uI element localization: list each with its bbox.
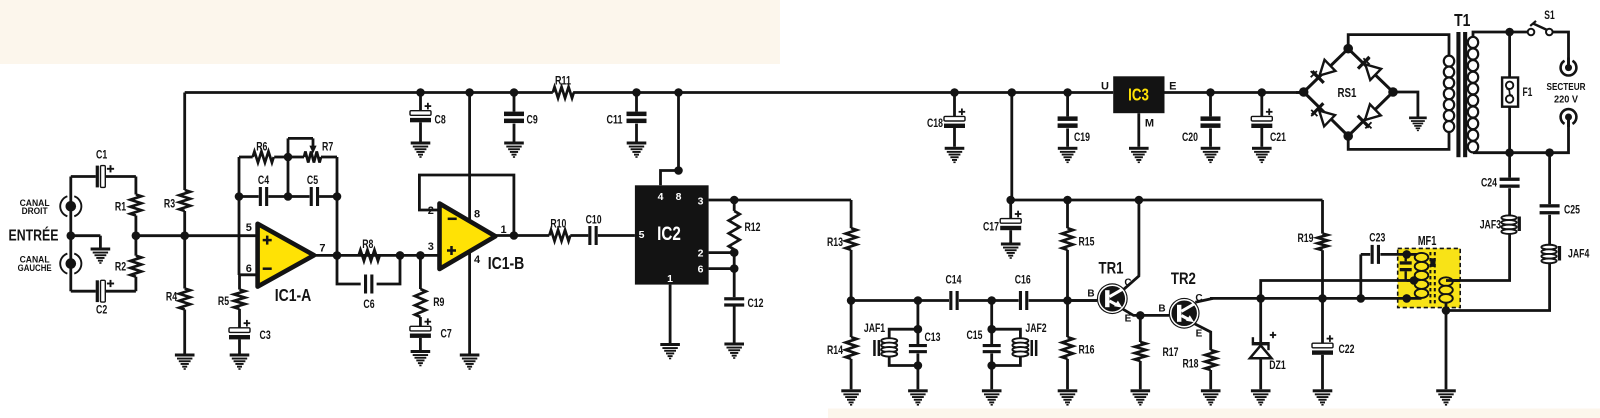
- capacitor C21: [1251, 116, 1272, 121]
- wire: IC3 M pin: [1137, 113, 1140, 147]
- IC1-A plus sign: [263, 239, 272, 242]
- MF1 internal capacitor: [1404, 254, 1406, 261]
- wire: C25 leg: [1548, 153, 1551, 205]
- wire: C24 leg: [1508, 153, 1511, 178]
- potentiometer R7: [304, 152, 321, 163]
- svg-text:JAF2: JAF2: [1025, 321, 1047, 335]
- wire: IC2 pin 3 row: [709, 199, 852, 202]
- svg-text:C5: C5: [307, 173, 319, 187]
- resistor R8: [359, 250, 380, 261]
- svg-text:C18: C18: [927, 116, 943, 130]
- capacitor C4: [259, 187, 262, 206]
- wire: R14 to ground: [850, 301, 853, 338]
- wire: bridge right vertex to ground: [1393, 92, 1418, 117]
- ground under C7: [411, 350, 431, 366]
- svg-text:R12: R12: [745, 220, 761, 234]
- resistor R12: [729, 211, 740, 250]
- svg-text:C4: C4: [258, 173, 270, 187]
- wire: MF1 centre-tap row: [1261, 281, 1414, 299]
- svg-text:2: 2: [428, 205, 434, 217]
- op-amp IC1-A: [258, 224, 315, 287]
- wire: C23 to MF1: [1380, 253, 1406, 256]
- wire: +V top rail left segment: [185, 91, 553, 94]
- svg-text:IC2: IC2: [657, 224, 681, 245]
- wire: MF1 secondary top overdraw: [1446, 279, 1460, 282]
- x mark bottom-left diode: [1311, 110, 1317, 116]
- resistor R5: [234, 290, 245, 309]
- svg-text:F1: F1: [1523, 87, 1533, 99]
- svg-text:8: 8: [474, 208, 480, 220]
- node: input junction: [67, 231, 76, 240]
- wire: IC2 V+ drop: [677, 93, 680, 171]
- wire: DZ1 column: [1259, 298, 1262, 342]
- svg-text:R4: R4: [166, 290, 178, 304]
- wire: JAF3 to MF1 right coil top: [1446, 233, 1510, 280]
- ground under IC1-B pin 4: [460, 354, 480, 370]
- wire: R7 wiper arm: [287, 138, 290, 157]
- node: R8 right junction: [396, 251, 405, 260]
- ground under C20: [1201, 147, 1221, 163]
- svg-text:1: 1: [500, 224, 506, 236]
- MF1 secondary coil: [1445, 278, 1447, 303]
- wire: C10 to IC2 pin 5: [598, 234, 635, 237]
- capacitor C16: [1019, 291, 1022, 310]
- wire: mains bottom row: [1473, 117, 1569, 153]
- svg-text:RS1: RS1: [1338, 86, 1357, 100]
- svg-text:R8: R8: [362, 237, 374, 251]
- ground under C17: [1001, 243, 1021, 259]
- switch S1: [1528, 29, 1535, 36]
- wire: TR2 collector diagonal: [1195, 298, 1213, 302]
- node: IC1-B output junction: [510, 231, 519, 240]
- IC IC3 (regulator): [1113, 76, 1164, 113]
- capacitor C13: [909, 344, 927, 347]
- node: JAF2 junctions: [987, 325, 996, 334]
- ground under C21: [1252, 147, 1272, 163]
- ground under C8: [411, 142, 431, 158]
- rectifier bridge RS1 ring: [1304, 49, 1393, 136]
- node: TR2 collector row junctions: [1256, 294, 1265, 303]
- wire: IC1-A pin 6 stub: [240, 273, 258, 276]
- wire: second rail (regulated) row: [1011, 199, 1323, 202]
- svg-text:R15: R15: [1079, 235, 1095, 249]
- svg-text:6: 6: [246, 263, 252, 275]
- wire: filter bus row: [851, 299, 949, 302]
- wire: C20 drop: [1209, 93, 1212, 117]
- wire: TR2 base: [1140, 314, 1169, 317]
- svg-text:C16: C16: [1015, 272, 1031, 286]
- T1 secondary winding: [1448, 58, 1450, 130]
- resistor R2: [130, 256, 141, 277]
- ground under C12: [724, 343, 744, 359]
- wire: +V top rail right segment: [1165, 91, 1304, 94]
- ground under C22: [1313, 389, 1333, 405]
- node: IC1-B pin 3 junction: [416, 251, 425, 260]
- svg-text:R18: R18: [1183, 357, 1199, 371]
- svg-text:ENTRÉE: ENTRÉE: [9, 227, 59, 244]
- svg-text:R14: R14: [827, 343, 843, 357]
- ground under C13: [908, 389, 928, 405]
- ground under IC3 M: [1129, 147, 1149, 163]
- node: JAF1 junctions: [914, 325, 923, 334]
- svg-text:8: 8: [676, 191, 682, 203]
- wire: C21 drop: [1260, 93, 1263, 117]
- svg-text:R19: R19: [1298, 231, 1314, 245]
- wire: R3 R4 column: [183, 93, 186, 191]
- wire: MF1 right coil ground column: [1445, 302, 1448, 389]
- wire: MF1 centre tap overdraw: [1407, 279, 1415, 282]
- wire: C17 drop: [1009, 200, 1012, 219]
- MF1 core (dashed): [1429, 252, 1431, 304]
- svg-text:T1: T1: [1454, 10, 1471, 30]
- svg-text:4: 4: [658, 191, 664, 203]
- svg-text:C3: C3: [260, 328, 272, 342]
- resistor R1: [130, 195, 141, 216]
- svg-text:C19: C19: [1074, 130, 1090, 144]
- x mark top-right diode: [1363, 58, 1369, 64]
- diode top-right of RS1: [1357, 56, 1382, 81]
- svg-text:C12: C12: [748, 296, 764, 310]
- capacitor C14: [949, 291, 952, 310]
- svg-text:C7: C7: [441, 326, 453, 340]
- capacitor C5: [310, 187, 313, 206]
- node: F1 top junction: [1505, 28, 1514, 37]
- wire: S1 to mains connector: [1553, 32, 1569, 68]
- resistor R3: [179, 190, 190, 211]
- ground under C15: [982, 389, 1002, 405]
- svg-text:C15: C15: [967, 328, 983, 342]
- svg-text:2: 2: [698, 247, 704, 259]
- svg-text:C8: C8: [435, 112, 447, 126]
- resistor R10: [549, 230, 570, 241]
- wire: TR2 collector row to MF1: [1210, 297, 1422, 300]
- ground under R4: [175, 354, 195, 370]
- wire: IC1-B V+ pin 8 drop: [468, 93, 471, 220]
- svg-text:R5: R5: [218, 294, 230, 308]
- wire: +V top rail mid segment: [573, 91, 1113, 94]
- svg-text:C24: C24: [1481, 175, 1497, 189]
- svg-text:C13: C13: [925, 330, 941, 344]
- ground under C11: [627, 142, 647, 158]
- wire: TR2 emitter diagonal: [1195, 324, 1211, 350]
- svg-text:C20: C20: [1182, 130, 1198, 144]
- capacitor C8: [410, 111, 431, 116]
- svg-text:4: 4: [474, 254, 481, 266]
- svg-text:C6: C6: [363, 297, 375, 311]
- svg-text:C11: C11: [607, 113, 623, 127]
- svg-text:R6: R6: [256, 140, 268, 154]
- svg-text:C25: C25: [1564, 202, 1580, 216]
- svg-text:C9: C9: [527, 113, 539, 127]
- IC IC2: [635, 185, 709, 284]
- wire: JAF2 loop: [992, 329, 1021, 338]
- svg-text:U: U: [1101, 80, 1109, 92]
- capacitor C3: [229, 328, 250, 333]
- IC1-B plus sign: [447, 249, 456, 252]
- capacitor C19: [1058, 116, 1078, 121]
- wire: IC2 pin 2 stub: [709, 251, 735, 254]
- ground under DZ1: [1251, 389, 1271, 405]
- svg-text:S1: S1: [1544, 10, 1555, 22]
- svg-text:C2: C2: [96, 302, 108, 316]
- connector: mains bottom: [1561, 109, 1577, 124]
- wire: input top (C1 row): [71, 175, 96, 178]
- node: filter bus junctions: [847, 296, 856, 305]
- wire: TR1 collector diagonal: [1123, 275, 1139, 289]
- svg-text:E: E: [1196, 329, 1203, 340]
- svg-text:C: C: [1124, 277, 1131, 288]
- connector: CANAL DROIT (RCA): [74, 196, 81, 216]
- wire: TR1 base: [1068, 299, 1098, 302]
- svg-text:TR1: TR1: [1099, 259, 1124, 278]
- wire: R1 R2 divider column: [134, 177, 137, 195]
- capacitor C2: [96, 280, 99, 302]
- svg-text:C14: C14: [946, 272, 962, 286]
- wire: R18 to ground: [1209, 370, 1212, 389]
- wire: ground stub at input: [71, 234, 101, 237]
- svg-text:C1: C1: [96, 148, 108, 162]
- wire: R10 to C10: [570, 234, 588, 237]
- resistor R11 (in rail): [553, 87, 574, 98]
- wire: IC1-B pin 4 to ground: [468, 252, 471, 354]
- resistor R18: [1205, 350, 1216, 370]
- svg-text:7: 7: [319, 243, 325, 255]
- wire: IC1-B output row: [495, 234, 549, 237]
- svg-text:DROIT: DROIT: [22, 206, 48, 217]
- cream band bottom-right: [828, 409, 1600, 418]
- wire: C15/JAF2 branch vertical: [990, 301, 993, 345]
- svg-text:DZ1: DZ1: [1269, 358, 1286, 372]
- x mark top-left diode: [1311, 71, 1317, 77]
- svg-text:C21: C21: [1270, 130, 1286, 144]
- wire: feedback right vertical (R7/C5 to output): [336, 157, 339, 255]
- wire: T1 primary bottom stub: [1472, 147, 1475, 153]
- svg-text:B: B: [1158, 304, 1165, 315]
- resistor R16: [1062, 337, 1073, 359]
- wire: feedback mid vertical: [287, 157, 290, 197]
- wire: C8 drop: [419, 93, 422, 111]
- svg-text:MF1: MF1: [1418, 234, 1437, 248]
- svg-text:3: 3: [428, 241, 434, 253]
- svg-text:R17: R17: [1163, 345, 1179, 359]
- svg-text:R13: R13: [827, 235, 843, 249]
- wire: T1 primary top row: [1473, 32, 1528, 37]
- svg-text:C23: C23: [1369, 230, 1385, 244]
- ground under R18: [1201, 389, 1221, 405]
- wire: C23 left leg: [1359, 254, 1362, 298]
- wire: IC1-A output row to IC1-B pin 3: [314, 254, 439, 257]
- svg-text:JAF3: JAF3: [1480, 217, 1502, 231]
- svg-text:GAUCHE: GAUCHE: [18, 263, 52, 274]
- node: rail junctions: [416, 88, 425, 97]
- svg-text:R9: R9: [433, 295, 445, 309]
- capacitor C10: [588, 226, 591, 245]
- node: TR1 emitter junction: [1136, 311, 1145, 320]
- wire: C18 drop: [953, 93, 956, 117]
- wire: C6 bypass loop: [337, 255, 361, 284]
- capacitor C7: [410, 326, 431, 331]
- ground under MF1: [1436, 389, 1456, 405]
- svg-text:R10: R10: [550, 217, 566, 231]
- resistor R6: [253, 152, 274, 163]
- resistor R4: [179, 289, 190, 310]
- capacitor C6: [364, 275, 367, 294]
- op-amp IC1-B: [440, 204, 496, 270]
- svg-text:C10: C10: [586, 212, 602, 226]
- resistor R15: [1062, 228, 1073, 250]
- capacitor C23: [1371, 245, 1374, 264]
- capacitor C9: [504, 112, 524, 117]
- ground under C3: [230, 354, 250, 370]
- wire: rail drop to second rail: [1010, 93, 1013, 201]
- wire: C22 column: [1321, 298, 1324, 343]
- transistor TR1: [1097, 283, 1128, 314]
- node: IC2 supply junction: [674, 166, 683, 175]
- svg-text:R16: R16: [1079, 343, 1095, 357]
- svg-text:M: M: [1145, 118, 1154, 130]
- wire: bridge left vertex stub: [1296, 91, 1304, 94]
- T1 primary winding: [1472, 36, 1474, 153]
- svg-text:E: E: [1169, 80, 1176, 92]
- resistor R13: [846, 228, 857, 250]
- wire: R7 row: [288, 156, 304, 159]
- svg-text:220 V: 220 V: [1554, 94, 1578, 106]
- wire: IC2 pin 6 stub: [709, 267, 735, 270]
- wire: R12 C12 column: [733, 200, 736, 211]
- connector: mains top: [1561, 61, 1577, 76]
- svg-text:C17: C17: [983, 220, 999, 234]
- svg-text:R1: R1: [115, 200, 127, 214]
- svg-text:B: B: [1087, 289, 1094, 300]
- wire: TR1 emitter diagonal: [1123, 309, 1140, 315]
- node: mains bottom junctions: [1505, 148, 1514, 157]
- wire: bridge to T1 secondary top: [1348, 35, 1449, 60]
- svg-text:3: 3: [698, 195, 704, 207]
- diode bottom-right of RS1: [1357, 104, 1382, 129]
- wire: JAF1/C13 branch vertical: [917, 301, 920, 345]
- wire: R13 drop: [850, 200, 853, 228]
- svg-text:R11: R11: [555, 73, 571, 87]
- svg-text:R2: R2: [115, 260, 127, 274]
- wire: C9 drop: [513, 93, 516, 112]
- diode bottom-left of RS1: [1311, 102, 1336, 127]
- inductor JAF1: [881, 338, 897, 343]
- wire: C4 C5 row: [239, 195, 259, 198]
- capacitor C12: [724, 297, 744, 300]
- resistor R19: [1318, 234, 1328, 251]
- inductor JAF3: [1501, 215, 1516, 220]
- wire: input node to op-amp pin 5: [136, 234, 258, 237]
- svg-text:IC1-B: IC1-B: [488, 253, 525, 273]
- cream band top-left: [0, 0, 780, 64]
- MF1 adjustment slug: [1430, 258, 1435, 267]
- wire: R6 row: [239, 156, 253, 159]
- capacitor C17: [1000, 219, 1021, 224]
- IF transformer MF1 box: [1398, 248, 1461, 307]
- ground at input: [91, 248, 111, 264]
- node: R6/R7 junction: [284, 153, 293, 162]
- capacitor C1: [96, 166, 99, 188]
- capacitor C22: [1312, 343, 1333, 348]
- node: R12 junctions: [730, 196, 739, 205]
- wire: left connector column: [69, 177, 72, 292]
- node: C4/C5 junction: [235, 192, 244, 201]
- ground under C18: [945, 147, 965, 163]
- wire: feedback left vertical (R6/C4 to pin 6): [238, 157, 241, 275]
- svg-text:JAF1: JAF1: [864, 321, 886, 335]
- ground at bridge right vertex: [1409, 117, 1427, 132]
- wire: JAF4 to MF1 right coil bottom: [1446, 262, 1550, 310]
- T1 core bars: [1456, 32, 1460, 157]
- svg-text:5: 5: [246, 222, 252, 234]
- R7 wiper arrowhead: [309, 146, 316, 154]
- resistor R14: [846, 337, 857, 359]
- capacitor C15: [983, 344, 1001, 347]
- wire: IC1-B feedback loop: [419, 175, 514, 236]
- fuse F1: [1502, 78, 1518, 107]
- wire: R15 drop: [1066, 200, 1069, 228]
- MF1 primary coil: [1420, 254, 1422, 298]
- wire: C11 drop: [635, 93, 638, 112]
- svg-text:TR2: TR2: [1171, 269, 1196, 288]
- node: bridge vertices: [1299, 87, 1309, 97]
- resistor R17: [1135, 342, 1146, 361]
- svg-text:1: 1: [667, 273, 673, 285]
- x mark bottom-right diode: [1365, 122, 1371, 128]
- wire: IC2 pins 4-8 link: [661, 171, 679, 186]
- ground under R16: [1058, 389, 1078, 405]
- wire: R16 to ground: [1066, 301, 1069, 338]
- ground under R17: [1131, 389, 1151, 405]
- wire: F1 column: [1508, 32, 1511, 153]
- svg-text:5: 5: [639, 229, 645, 241]
- wire: bridge to T1 secondary bottom: [1348, 128, 1449, 149]
- ground under IC2 pin 1: [660, 343, 680, 359]
- ground under C19: [1058, 147, 1078, 163]
- zener diode DZ1: [1252, 342, 1270, 345]
- svg-text:C: C: [1195, 293, 1202, 304]
- ground under C9: [504, 142, 524, 158]
- capacitor C25: [1540, 204, 1560, 207]
- wire: R17 to ground: [1139, 315, 1142, 342]
- svg-text:SECTEUR: SECTEUR: [1547, 81, 1586, 93]
- wire: IC2 pin 1 to ground: [669, 285, 672, 343]
- capacitor C11: [627, 112, 647, 117]
- wire: JAF1 loop: [889, 329, 918, 338]
- node: IC1-A output: [333, 251, 342, 260]
- capacitor C24: [1500, 178, 1520, 181]
- node: second rail junctions: [1006, 196, 1015, 205]
- transistor TR2: [1169, 298, 1200, 329]
- svg-text:R7: R7: [322, 140, 334, 154]
- svg-text:E: E: [1125, 313, 1132, 324]
- node: MF1 junctions: [1402, 250, 1411, 259]
- resistor R9: [415, 289, 426, 317]
- svg-text:6: 6: [698, 263, 704, 275]
- plus mark DZ1: [1270, 334, 1276, 336]
- svg-text:IC1-A: IC1-A: [275, 285, 312, 305]
- IC1-B minus sign: [448, 218, 457, 221]
- connector: CANAL GAUCHE (RCA): [74, 254, 81, 274]
- capacitor C18: [944, 116, 965, 121]
- IC1-A minus sign: [263, 267, 272, 270]
- svg-text:C22: C22: [1339, 342, 1355, 356]
- svg-text:IC3: IC3: [1128, 85, 1149, 105]
- wire: input bottom (C2 row): [71, 290, 96, 293]
- svg-text:JAF4: JAF4: [1568, 247, 1590, 261]
- wire: R5 C3 column: [238, 275, 241, 290]
- wire: R19 column: [1321, 200, 1324, 234]
